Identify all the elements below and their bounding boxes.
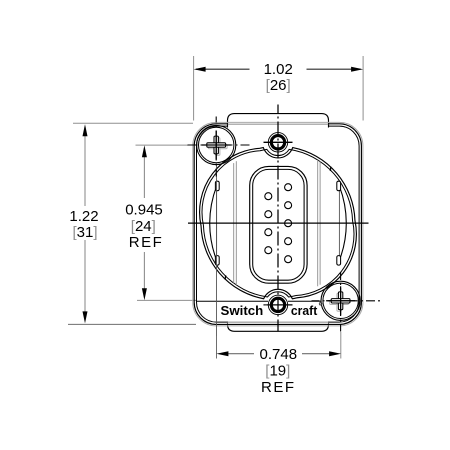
svg-text:Switch: Switch [221,303,264,318]
svg-text:1.22: 1.22 [69,208,98,225]
top screw [264,133,293,152]
junction tick lower-left [224,275,227,279]
main vertical centerline [277,105,279,332]
left latch crescent slot [210,181,220,265]
bottom mounting tab [228,323,329,331]
svg-text:[19]: [19] [265,362,290,379]
Switchcraft logo text [221,303,318,318]
svg-text:REF: REF [129,234,164,251]
svg-text:0.945: 0.945 [125,202,163,219]
dimension 1.22 [31] overall height [68,123,196,324]
svg-text:1.02: 1.02 [264,61,293,78]
svg-text:[24]: [24] [131,218,156,235]
trademark tick after Switch [264,304,267,305]
registered mark after craft [319,302,322,305]
flange outline outer [194,124,361,325]
flange outline inner [197,126,360,322]
mounting hole bottom-right [321,281,360,320]
insert bracket hidden edges [234,160,320,286]
svg-text:craft: craft [291,303,318,318]
bottom-right hole centerlines [312,272,381,332]
D-sub shell inner line [253,169,304,280]
top mounting tab [228,114,329,128]
bottom screw [264,295,293,314]
main horizontal centerline [188,222,369,224]
svg-text:0.748: 0.748 [260,346,298,363]
extension line from top-left hole down to 0.748 dimension [216,165,218,336]
svg-text:REF: REF [261,379,296,396]
connector boss circle outer line (with screw notches and shoulder bulges) [200,148,357,299]
dimension 0.748 [19] REF hole spacing horizontal [216,332,341,396]
dimension 0.945 [24] REF hole spacing vertical [125,145,196,300]
svg-text:[26]: [26] [266,77,291,94]
flange shadow outline (gray) [193,122,363,326]
right latch crescent slot [337,181,347,265]
mounting hole top-left [197,125,236,164]
svg-text:[31]: [31] [72,224,97,241]
dimension 1.02 [26] top width [194,56,364,121]
boss bottom chord line [197,300,268,302]
connector boss circle inner line [202,149,354,297]
D-sub shell outer line [250,166,307,283]
junction tick upper-right [329,167,332,171]
D-sub pins (9 sockets) [265,184,292,263]
top-left hole centerlines [188,117,250,177]
